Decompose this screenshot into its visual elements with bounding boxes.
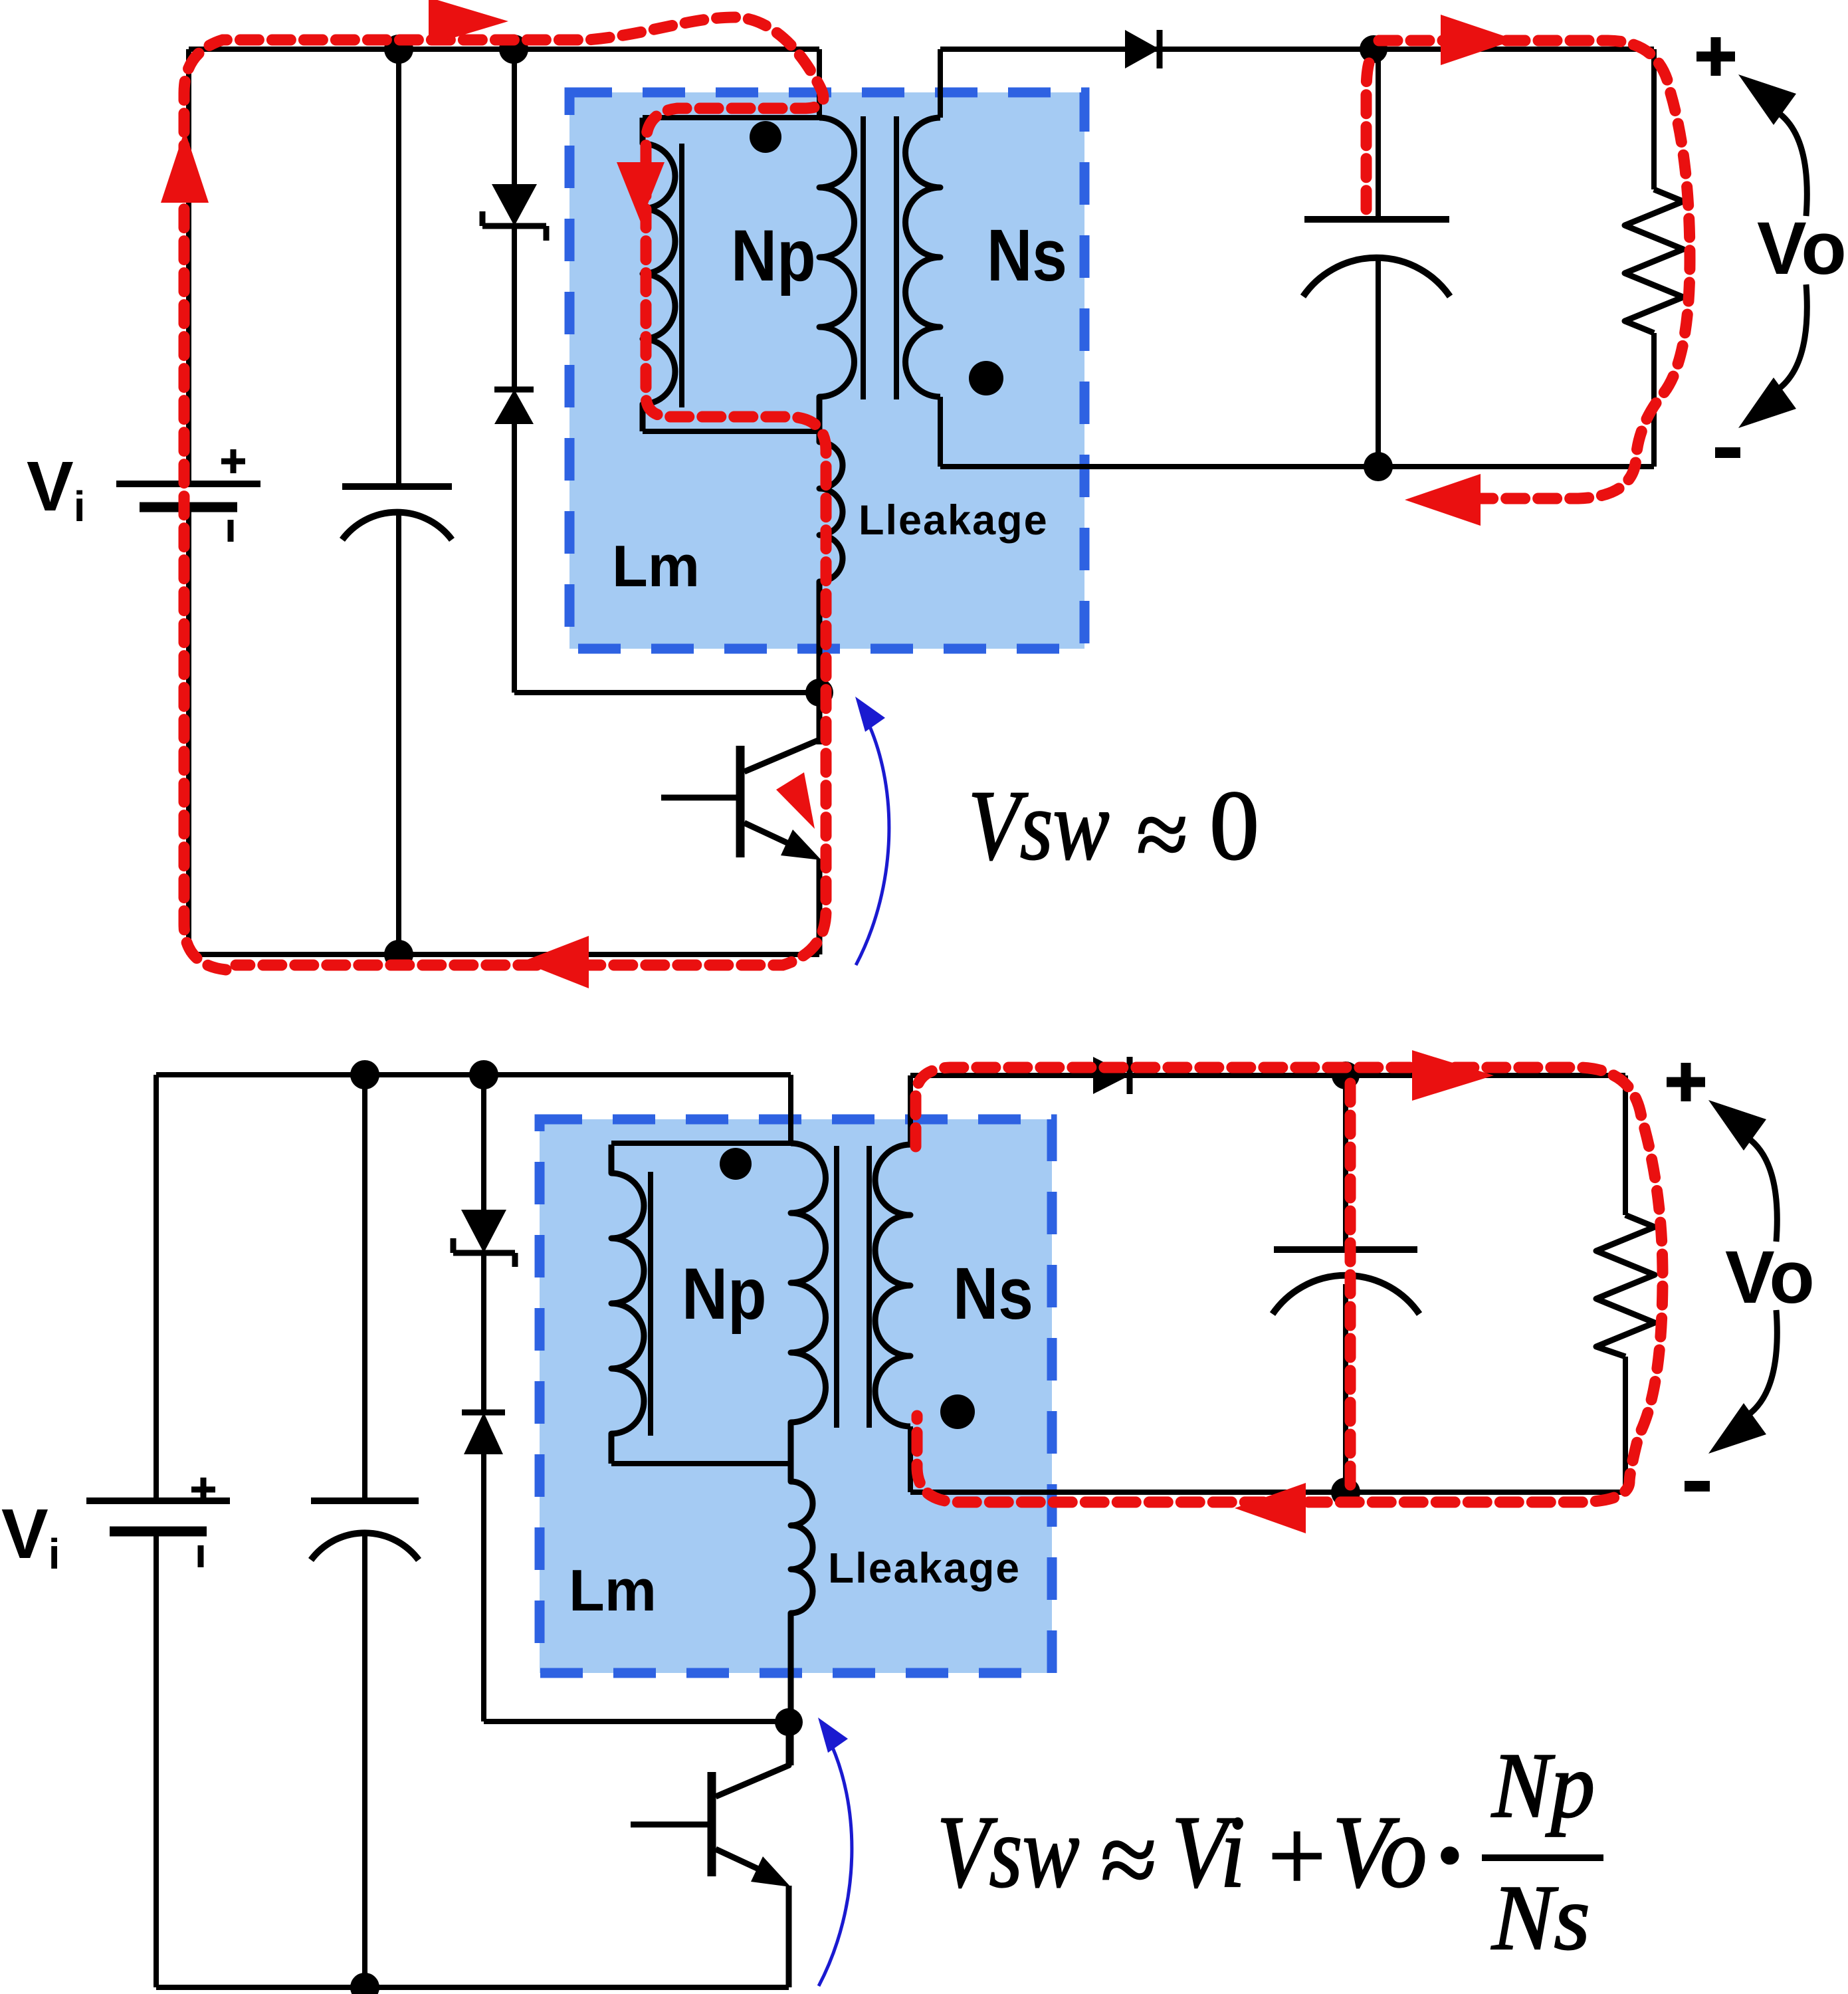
load resistor bottom	[1596, 1215, 1655, 1357]
plus label output bottom	[1667, 1063, 1705, 1101]
red arrow bottom: bottom rail left	[1235, 1483, 1306, 1533]
secondary rail	[910, 1073, 1625, 1078]
minus label output bottom	[1685, 1481, 1710, 1492]
output cap branch wires	[1376, 49, 1381, 467]
Ns bottom wire	[908, 1426, 913, 1492]
Vo arc arrow bottom bottom-circuit	[1708, 1310, 1777, 1454]
red arrow bottom: top rail right	[1412, 1050, 1494, 1101]
output bottom rail	[940, 464, 1654, 469]
polarity dot Ns bottom	[940, 1394, 975, 1429]
output bottom rail	[910, 1490, 1625, 1495]
load branch wires	[1651, 49, 1657, 467]
battery left wire	[154, 1075, 159, 1987]
svg-text:Ns: Ns	[1490, 1866, 1590, 1969]
junction dots primary	[384, 35, 413, 64]
svg-text:Lm: Lm	[612, 533, 700, 599]
zener clamp diode D1	[482, 184, 546, 241]
svg-text:Np: Np	[682, 1253, 767, 1335]
transformer bottom wire	[643, 429, 819, 434]
wires: top rail	[189, 49, 1654, 954]
switch node dot bottom	[775, 1708, 803, 1736]
blue Vsw arrow bottom	[818, 1717, 852, 1986]
blue Vsw arrow	[855, 697, 889, 965]
battery minus tick bottom	[198, 1545, 204, 1567]
transformer bottom wire	[611, 1461, 791, 1466]
input cap branch wires	[362, 1075, 367, 1987]
output diode D3	[1125, 30, 1160, 68]
primary winding Np	[819, 118, 855, 431]
Ns winding bottom	[875, 1145, 910, 1426]
secondary top rail	[940, 47, 1654, 52]
clamp branch wires	[481, 1075, 486, 1721]
svg-text:Vo: Vo	[1725, 1236, 1815, 1319]
svg-text:Ns: Ns	[987, 214, 1067, 296]
clamp branch wires	[512, 49, 517, 693]
red arrow at Lm down	[617, 162, 665, 222]
polarity dot Np	[750, 121, 781, 153]
clamp to switch-node wire	[514, 690, 819, 695]
Lm winding bottom	[611, 1145, 651, 1464]
Vo arc arrow bottom	[1738, 284, 1807, 428]
Ns bottom wire	[938, 397, 943, 467]
svg-text:Vi: Vi	[1, 1495, 60, 1578]
Lleakage bottom	[791, 1464, 813, 1765]
red arrow secondary top right	[1441, 15, 1516, 65]
magnetizing inductance Lm winding	[643, 118, 682, 431]
svg-text:≈: ≈	[1100, 1803, 1157, 1917]
svg-text:Vsw: Vsw	[937, 1795, 1079, 1909]
svg-text:Vo: Vo	[1757, 207, 1847, 290]
input capacitor bottom	[311, 1501, 419, 1560]
svg-text:0: 0	[1209, 770, 1259, 881]
input cap branch wires	[396, 49, 401, 954]
transistor Q bottom	[631, 1722, 789, 1987]
transformer core lines	[863, 116, 896, 399]
svg-text:+: +	[1268, 1799, 1326, 1913]
output junction dots bottom	[1332, 1061, 1360, 1089]
clamp to switch node wire	[484, 1719, 789, 1724]
minus label output	[1715, 447, 1740, 458]
svg-text:Lleakage: Lleakage	[859, 497, 1049, 544]
polarity dot Ns	[969, 361, 1003, 395]
battery Vi plates	[116, 484, 260, 507]
battery plus bottom	[191, 1478, 215, 1501]
Ns top wire	[938, 49, 943, 118]
transformer model box (blue dashed) bottom	[540, 1119, 1052, 1673]
svg-text:·: ·	[1433, 1798, 1467, 1912]
red arrow top rail	[429, 0, 508, 45]
svg-text:Ns: Ns	[953, 1252, 1033, 1334]
label Vsw ~ 0	[968, 770, 1259, 887]
polarity dot Np bottom	[720, 1148, 752, 1180]
svg-text:Vi: Vi	[27, 447, 85, 530]
transistor emitter arrowhead	[781, 830, 821, 860]
battery Vi plates bottom	[86, 1501, 230, 1531]
red arrow left wire up	[161, 130, 209, 203]
transformer top wire	[611, 1141, 791, 1146]
formula Vsw = Vi + Vo * Np/Ns	[937, 1733, 1603, 1969]
secondary winding Ns	[906, 118, 941, 397]
transformer model box (blue dashed)	[569, 92, 1084, 649]
output capacitor	[1303, 219, 1450, 296]
red arrow bottom rail left	[522, 936, 589, 988]
clamp diode D2	[494, 389, 534, 424]
svg-text:Vo: Vo	[1332, 1795, 1427, 1910]
red current loop primary side	[184, 17, 826, 970]
load branch	[1623, 1075, 1628, 1492]
svg-text:≈: ≈	[1136, 782, 1188, 887]
corner into transformer	[788, 1075, 793, 1143]
leakage inductance Lleakage	[819, 431, 843, 744]
svg-text:Vsw: Vsw	[968, 770, 1110, 881]
red current loop secondary (bottom circuit)	[916, 1067, 1663, 1502]
red current loop secondary side	[1366, 41, 1690, 498]
top rail bottom circuit	[156, 1072, 791, 1077]
junction dots bottom circuit	[350, 1060, 379, 1089]
battery left wire	[186, 49, 191, 954]
transistor emitter arrowhead bottom	[751, 1856, 791, 1887]
svg-text:Np: Np	[731, 215, 816, 296]
wire corner into transformer	[817, 49, 822, 118]
zener clamp diode bottom	[453, 1210, 515, 1267]
clamp diode bottom	[462, 1412, 505, 1454]
load resistor R	[1625, 189, 1683, 333]
switch node dot	[805, 679, 833, 707]
output junction dots	[1360, 35, 1387, 63]
Vo arc arrow top	[1738, 74, 1807, 216]
svg-text:Vi: Vi	[1172, 1795, 1245, 1909]
red arrow secondary bottom left	[1405, 474, 1481, 526]
Ns top wire	[908, 1075, 913, 1145]
output capacitor bottom	[1273, 1250, 1419, 1314]
wires bottom circuit	[156, 1075, 1625, 1987]
svg-text:Lleakage: Lleakage	[828, 1544, 1021, 1592]
output cap branch	[1343, 1075, 1348, 1492]
transistor Q1	[661, 693, 819, 954]
Vo arc arrow top bottom-circuit	[1708, 1100, 1777, 1242]
battery plus sign	[221, 449, 245, 473]
input capacitor	[342, 487, 452, 540]
bottom rail	[156, 1985, 789, 1990]
transformer top wire	[643, 115, 819, 120]
core lines bottom	[837, 1146, 869, 1428]
svg-text:Np: Np	[1491, 1733, 1595, 1837]
plus label output	[1696, 37, 1735, 76]
battery minus tick	[228, 520, 234, 542]
output diode bottom	[1093, 1057, 1130, 1094]
svg-text:Lm: Lm	[569, 1557, 657, 1623]
Lm core bar	[679, 144, 684, 407]
Np winding bottom	[791, 1143, 826, 1464]
bottom rail	[189, 952, 819, 957]
red arrow at transistor	[776, 772, 815, 829]
